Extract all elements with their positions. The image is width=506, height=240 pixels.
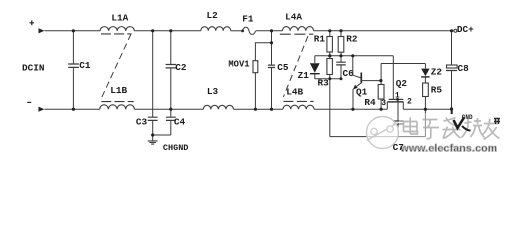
svg-text:C5: C5 bbox=[277, 62, 289, 73]
svg-text:L4B: L4B bbox=[286, 87, 303, 98]
resistor R4 bbox=[378, 85, 384, 100]
svg-text:3: 3 bbox=[381, 99, 386, 108]
fuse F1 terminal blob bbox=[241, 30, 244, 33]
wire MOV1 tee bbox=[255, 43, 271, 109]
wire top rail segment 2 bbox=[134, 30, 201, 32]
wire Z1/R3 bottom tie bbox=[315, 78, 341, 80]
svg-text:L1B: L1B bbox=[110, 85, 127, 96]
input arrow negative bbox=[39, 107, 45, 112]
dark watermark logo mark bbox=[451, 109, 453, 114]
svg-text:GND: GND bbox=[462, 114, 473, 121]
DC+ output terminal bbox=[454, 29, 457, 32]
wire R2/C6 leads bbox=[340, 31, 342, 79]
svg-text:C2: C2 bbox=[175, 62, 187, 73]
wire R4 bottom lead bbox=[380, 99, 382, 109]
svg-text:L3: L3 bbox=[207, 86, 219, 97]
wire top rail segment 4 bbox=[256, 30, 283, 32]
wire gate net horizontal bbox=[315, 55, 394, 57]
svg-text:C7: C7 bbox=[393, 142, 404, 153]
svg-text:F1: F1 bbox=[242, 14, 254, 25]
fuse F1 bbox=[242, 27, 255, 34]
zener diode Z1 bbox=[310, 63, 320, 73]
capacitor C3 bbox=[148, 117, 158, 120]
svg-text:C3: C3 bbox=[136, 116, 148, 127]
wire C1 branch bbox=[72, 31, 74, 109]
chassis ground CHGND bbox=[148, 141, 158, 144]
svg-text:www.elecfans.com: www.elecfans.com bbox=[400, 142, 498, 154]
svg-text:R2: R2 bbox=[346, 33, 358, 44]
wire bottom loop bbox=[330, 109, 426, 136]
svg-text:C1: C1 bbox=[79, 60, 91, 71]
svg-text:DCIN: DCIN bbox=[22, 62, 45, 73]
resistor R5 bbox=[423, 83, 429, 97]
wire C5 branch bbox=[271, 31, 273, 109]
svg-text:R5: R5 bbox=[431, 84, 443, 95]
inductor L4A bbox=[280, 27, 314, 35]
mosfet Q2 bbox=[387, 99, 403, 109]
wire R5 bottom lead bbox=[424, 97, 426, 110]
capacitor C8 (polarized) bbox=[446, 65, 457, 71]
watermark bbox=[367, 109, 504, 157]
transistor Q1 bbox=[353, 56, 381, 109]
wire chassis tie bbox=[153, 135, 171, 141]
inductor L4B bbox=[283, 101, 314, 109]
svg-text:R1: R1 bbox=[314, 33, 326, 44]
coupling slash L4A/L4B bbox=[283, 36, 308, 97]
svg-text:R4: R4 bbox=[364, 97, 376, 108]
wire Z1 leads bbox=[314, 56, 316, 79]
resistor R2 bbox=[338, 37, 344, 53]
wire Z2 to R5 bbox=[424, 77, 426, 83]
wire bottom rail segment 1 bbox=[44, 108, 99, 110]
inductor L1B bbox=[100, 102, 135, 110]
wire top rail segment 5 bbox=[314, 30, 454, 32]
svg-text:Z2: Z2 bbox=[431, 67, 443, 78]
resistor R3 bbox=[327, 59, 333, 75]
zener diode Z2 bbox=[421, 69, 429, 77]
wire bottom rail segment 3 bbox=[234, 108, 284, 110]
inductor L1A bbox=[100, 27, 134, 34]
svg-text:L4A: L4A bbox=[285, 11, 302, 22]
capacitor C6 bbox=[336, 62, 346, 65]
wire bottom rail segment 2 bbox=[134, 108, 203, 110]
svg-text:2: 2 bbox=[407, 98, 412, 107]
svg-text:CHGND: CHGND bbox=[163, 143, 189, 153]
svg-text:R3: R3 bbox=[318, 77, 330, 88]
svg-text:Q2: Q2 bbox=[396, 78, 408, 89]
varistor MOV1 bbox=[253, 61, 258, 73]
inductor L2 bbox=[201, 27, 231, 31]
wire C8 branch bbox=[451, 31, 453, 109]
wire top rail segment 3 bbox=[231, 30, 243, 32]
minus terminal mark bbox=[27, 101, 31, 103]
capacitor C7 bbox=[393, 121, 404, 124]
wire C3 branch (top rail to chassis) bbox=[152, 31, 154, 135]
wire R1/R3 leads bbox=[329, 31, 331, 137]
capacitor C5 bbox=[268, 65, 275, 67]
input arrow positive bbox=[39, 28, 45, 33]
coupling slash L1A/L1B bbox=[101, 34, 131, 100]
svg-text:L1A: L1A bbox=[111, 12, 128, 23]
svg-text:C4: C4 bbox=[174, 116, 186, 127]
svg-text:DC+: DC+ bbox=[457, 24, 474, 35]
wire bottom rail segment 4 bbox=[314, 108, 387, 110]
svg-text:L2: L2 bbox=[207, 10, 219, 21]
inductor L3 bbox=[203, 105, 233, 109]
plus terminal mark bbox=[30, 21, 35, 26]
wire R4 top and Z2 feed bbox=[381, 64, 425, 85]
wire C2/C4 branch bbox=[170, 31, 172, 135]
wire bottom rail segment 5 bbox=[403, 108, 453, 110]
wire C7 leads bbox=[397, 99, 399, 136]
wire Q2 gate drop bbox=[392, 56, 394, 100]
capacitor C1 bbox=[68, 64, 79, 67]
wire top rail segment 1 bbox=[44, 30, 100, 32]
capacitor C2 bbox=[166, 65, 176, 68]
svg-text:Z1: Z1 bbox=[298, 70, 310, 81]
resistor R1 bbox=[327, 37, 333, 53]
capacitor C4 bbox=[166, 117, 176, 120]
svg-text:C8: C8 bbox=[458, 63, 470, 74]
svg-text:MOV1: MOV1 bbox=[228, 60, 249, 70]
